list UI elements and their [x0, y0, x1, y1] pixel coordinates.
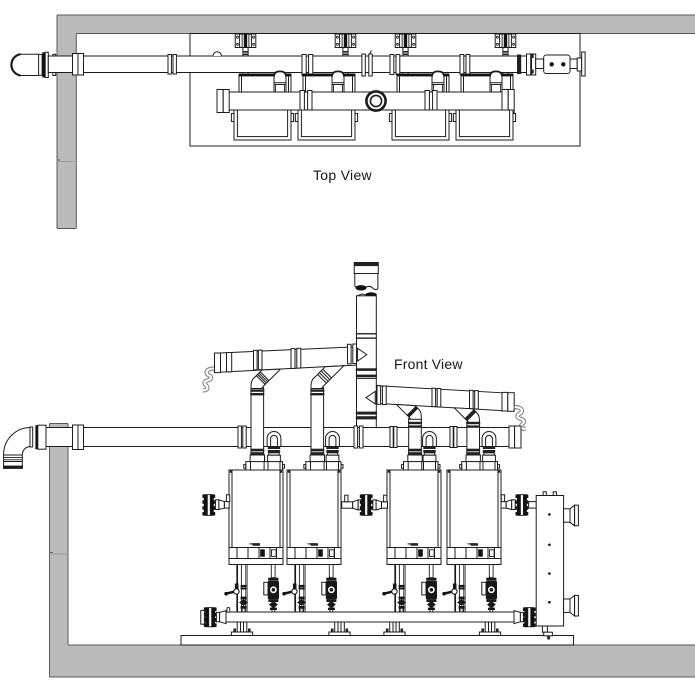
dark clamp band [517, 55, 521, 75]
rings after elbow [30, 427, 33, 447]
coupling [390, 55, 394, 75]
circulating pump, boiler 3 [426, 581, 437, 600]
boiler 2 logo [311, 543, 319, 546]
boiler 3 return pipe (thin) [394, 565, 396, 613]
arch adapter box on boiler 3 top [423, 455, 436, 462]
end flange bar [577, 58, 582, 71]
top view: rack enclosure outline [190, 34, 580, 147]
top view wall seam [57, 161, 76, 163]
45-degree elbow of boiler 3 riser [396, 405, 421, 421]
45-degree elbow of boiler 1 riser [251, 369, 281, 390]
stack collar [356, 333, 377, 335]
stub below vent header to boiler top [242, 73, 244, 76]
elbow flange rings [39, 54, 43, 75]
break gap lower edge [357, 294, 377, 297]
flange pack right of wall [73, 425, 79, 450]
flue collar at x=496 [490, 71, 502, 92]
right end cap rings [502, 392, 508, 411]
riser adapter box on boiler 4 top [466, 455, 480, 462]
boiler 2 body (top view) [298, 110, 355, 140]
flue collar at x=438 [432, 71, 444, 92]
adapter plate at boiler top x=257.3 [246, 462, 283, 470]
top view: vent header pipe along wall [11, 51, 585, 78]
pipe through wall [48, 56, 192, 73]
boiler 2 top casing [303, 74, 355, 92]
top view: wall (gray, L-shaped) [57, 15, 695, 229]
stack collar below upper wye [356, 368, 377, 371]
left end cap rings [215, 353, 221, 373]
shutoff valve (dark), boiler 4 [458, 600, 466, 606]
condensate trap squiggle at left end [203, 369, 214, 391]
boiler 2 arrow mark [308, 543, 318, 545]
boiler 2 front casing [287, 470, 341, 565]
valve body with two ports [544, 55, 570, 74]
front view: boiler flue risers with 45-degree elbows [250, 369, 280, 462]
riser collar below air manifold, boiler 4 [466, 449, 480, 452]
boiler 1 body (top view) [234, 110, 291, 140]
bracket at x=405.5 [395, 34, 416, 48]
riser collar below air manifold, boiler 3 [408, 449, 422, 452]
stub below vent header to boiler top [342, 73, 344, 76]
riser collar below air manifold, boiler 2 [310, 449, 324, 452]
circulating pump, boiler 2 [326, 581, 337, 600]
elbow turning down at left end [4, 428, 31, 469]
coupling [390, 427, 393, 448]
support foot at x=394.5 [389, 622, 391, 632]
reducer neck [536, 59, 544, 69]
front view: common vent flange left of boiler 1 [202, 494, 229, 516]
coupling [300, 91, 304, 112]
boiler 4 logo [471, 543, 479, 546]
boiler 3 logo [411, 543, 419, 546]
pump outlet valve, boiler 3 [426, 599, 436, 602]
coupling on left flue manifold 2 [254, 350, 258, 370]
tank lifting lugs [543, 492, 546, 496]
boiler 4 top casing [461, 74, 513, 92]
front view: left flue manifold (sloped) [203, 344, 360, 390]
elbow outlet rings (pointing down) [4, 454, 23, 456]
coupling on right flue manifold 2 [470, 390, 474, 408]
small vent dome on pipe [213, 52, 221, 56]
front view: crossover flange between boilers 2 and 3 [342, 494, 388, 516]
adapter plate at boiler top x=415.0 [404, 462, 439, 470]
vertical riser of boiler 3 [409, 419, 422, 455]
gas valve with handwheel, boiler 3 [393, 584, 397, 590]
boiler 1 control band [229, 547, 283, 549]
top view: boiler casing tops [239, 74, 291, 92]
boiler 4 body (top view) [456, 110, 513, 140]
vent header pipe run [84, 56, 533, 73]
stack top cap [354, 263, 378, 274]
boiler 4 return pipe (thin) [454, 565, 456, 613]
coupling [460, 55, 464, 75]
flange pack right of wall [73, 54, 79, 76]
coupling [450, 427, 453, 448]
svg-text:Front View: Front View [394, 356, 463, 372]
riser adapter box on boiler 2 top [310, 455, 324, 462]
45-degree elbow of boiler 4 riser [454, 408, 479, 425]
stub below vent header to boiler top [402, 73, 404, 76]
outlet neck [570, 59, 577, 69]
coupling [425, 91, 429, 112]
air intake arch of boiler 1 [267, 431, 281, 446]
circulating pump, boiler 1 [268, 581, 279, 600]
45-degree elbow of boiler 2 riser [311, 366, 344, 390]
coupling on left flue manifold [291, 349, 295, 369]
tank upper port to system [564, 509, 570, 522]
vertical riser of boiler 4 [467, 423, 480, 455]
boiler 2 return pipe (thin) [294, 565, 296, 613]
tank lower port to system [564, 599, 570, 612]
top view: wall brackets for vent risers [235, 34, 256, 76]
bracket at x=505.5 [495, 34, 516, 48]
boiler 3 body (top view) [392, 110, 449, 140]
front view: air intake arch connectors [267, 431, 281, 461]
arch adapter box on boiler 2 top [326, 455, 339, 462]
arch adapter box on boiler 4 top [483, 455, 496, 462]
bracket at x=245.5 [235, 34, 256, 48]
boiler 1 logo [253, 543, 261, 546]
front view: boiler connection piping, valves and pumps [224, 565, 279, 613]
boiler 4 arrow mark [468, 543, 478, 545]
front view: vent adapter plates on boiler tops [244, 462, 285, 470]
riser stub from wall bracket to vent header [502, 48, 504, 57]
gas valve with handwheel, boiler 1 [235, 584, 239, 590]
boiler 1 return pipe (thin) [236, 565, 238, 613]
boiler 1 supply pipe [241, 565, 245, 613]
flue collar at x=338 [332, 71, 344, 92]
flue collar at x=280 [274, 71, 286, 92]
air intake arch of boiler 2 [326, 431, 340, 446]
top view: flue collars (domes) on boiler tops [274, 71, 286, 92]
pump flanges, boiler 3 [429, 565, 433, 578]
boiler 1 arrow mark [250, 543, 260, 545]
circulating pump, boiler 4 [486, 581, 497, 600]
shutoff valve (dark), boiler 3 [398, 600, 406, 606]
side tabs [231, 114, 234, 122]
condensate trap squiggle at right end [515, 407, 526, 429]
coupling [238, 426, 241, 448]
vertical riser of boiler 2 [311, 389, 324, 456]
left end cap rings [217, 90, 223, 113]
boiler 3 front casing [387, 470, 441, 565]
arch adapter box on boiler 1 top [268, 455, 281, 462]
side tabs [453, 114, 456, 122]
support foot at x=339.5 [334, 622, 336, 632]
top view: boiler bodies [231, 110, 293, 140]
tank sensor dots [548, 513, 551, 516]
front view: base platform rail [181, 636, 574, 646]
shutoff valve (dark), boiler 1 [240, 600, 248, 606]
air manifold pipe run [46, 428, 521, 447]
couplers on supply pipe, boiler 1 [241, 585, 247, 587]
riser stub from wall bracket to vent header [402, 48, 404, 57]
boiler 2 control band [287, 547, 341, 549]
coupling at stack crossing [354, 426, 358, 448]
svg-text:Top View: Top View [313, 167, 373, 183]
boiler 3 control band [387, 547, 441, 549]
adapter plate at boiler top x=317.3 [306, 462, 341, 470]
boiler 3 arrow mark [408, 543, 418, 545]
pump flanges, boiler 1 [271, 565, 275, 578]
right manifold end flange to tank [514, 611, 520, 624]
pump flanges, boiler 2 [329, 565, 333, 578]
boiler 4 front casing [447, 470, 501, 565]
air intake arch of boiler 4 [482, 431, 496, 446]
pump outlet valve, boiler 1 [268, 599, 278, 602]
front view: right flue manifold (sloped) [372, 385, 526, 429]
front view: manifold support feet [231, 622, 252, 636]
boiler 4 control band [447, 547, 501, 549]
lower wye marker (right manifold inlet) [366, 391, 375, 404]
coupling [168, 55, 171, 75]
gas valve with handwheel, boiler 4 [453, 584, 457, 590]
riser adapter box on boiler 1 top [250, 455, 264, 462]
flue stack opening (circle) in manifold [366, 91, 385, 110]
stack body [357, 296, 377, 428]
end flange disc [582, 52, 585, 76]
support foot at x=242 [236, 622, 238, 632]
front view: air intake manifold pipe from wall [3, 425, 521, 468]
tank drain [542, 626, 547, 632]
couplers on supply pipe, boiler 4 [459, 585, 465, 587]
coupling on right flue manifold [432, 388, 436, 406]
end rings before valve [527, 54, 531, 75]
front view: vertical flue stack [354, 263, 378, 428]
boiler 1 front casing [229, 470, 283, 565]
support foot at x=490 [484, 622, 486, 632]
bell rings at stack side [377, 386, 381, 405]
boiler 4 supply pipe [459, 565, 463, 613]
side tabs [389, 114, 392, 122]
couplers on supply pipe, boiler 2 [299, 585, 305, 587]
hub coupling [362, 54, 365, 76]
riser stub from wall bracket to vent header [342, 48, 344, 57]
front wall seam [50, 553, 69, 555]
bracket at x=345.5 [335, 34, 356, 48]
boiler 1 top casing [239, 74, 291, 92]
vertical riser of boiler 1 [251, 389, 264, 456]
riser stub from wall bracket to vent header [242, 48, 244, 57]
adapter plate at boiler top x=473.2 [462, 462, 498, 470]
front view: wall (gray) and floor (gray) [50, 424, 695, 678]
top view: air intake manifold pipe [217, 90, 514, 113]
front view: wall-hung boilers [229, 470, 283, 565]
bell where manifold enters stack [348, 344, 352, 364]
front view: lower supply/return manifold [201, 607, 536, 627]
stub below vent header to boiler top [502, 73, 504, 76]
shutoff valve (dark), boiler 2 [298, 600, 306, 606]
end rings of air manifold [509, 426, 515, 448]
pump flanges, boiler 4 [489, 565, 493, 578]
front view: low-loss header tank [536, 492, 578, 640]
riser collar below air manifold, boiler 1 [250, 449, 264, 452]
side tabs [295, 114, 298, 122]
left manifold end flange [204, 608, 206, 611]
upper wye marker (left manifold inlet) [358, 348, 367, 361]
elbow at left end of vent header [11, 54, 38, 75]
riser adapter box on boiler 3 top [408, 455, 422, 462]
stack upper segment with break symbol [354, 274, 356, 287]
air intake arch of boiler 3 [423, 432, 437, 446]
boiler 3 supply pipe [399, 565, 403, 613]
boiler 3 top casing [397, 74, 449, 92]
front view: flange right of boiler 4 to header tank [501, 494, 536, 516]
coupling [302, 55, 306, 76]
couplers on supply pipe, boiler 3 [399, 585, 405, 587]
right end cap rings [502, 90, 508, 113]
pump outlet valve, boiler 4 [486, 599, 496, 602]
gas valve with handwheel, boiler 2 [293, 584, 297, 590]
boiler 2 supply pipe [299, 565, 303, 613]
pump outlet valve, boiler 2 [326, 599, 336, 602]
stack collar at bottom [356, 412, 377, 415]
